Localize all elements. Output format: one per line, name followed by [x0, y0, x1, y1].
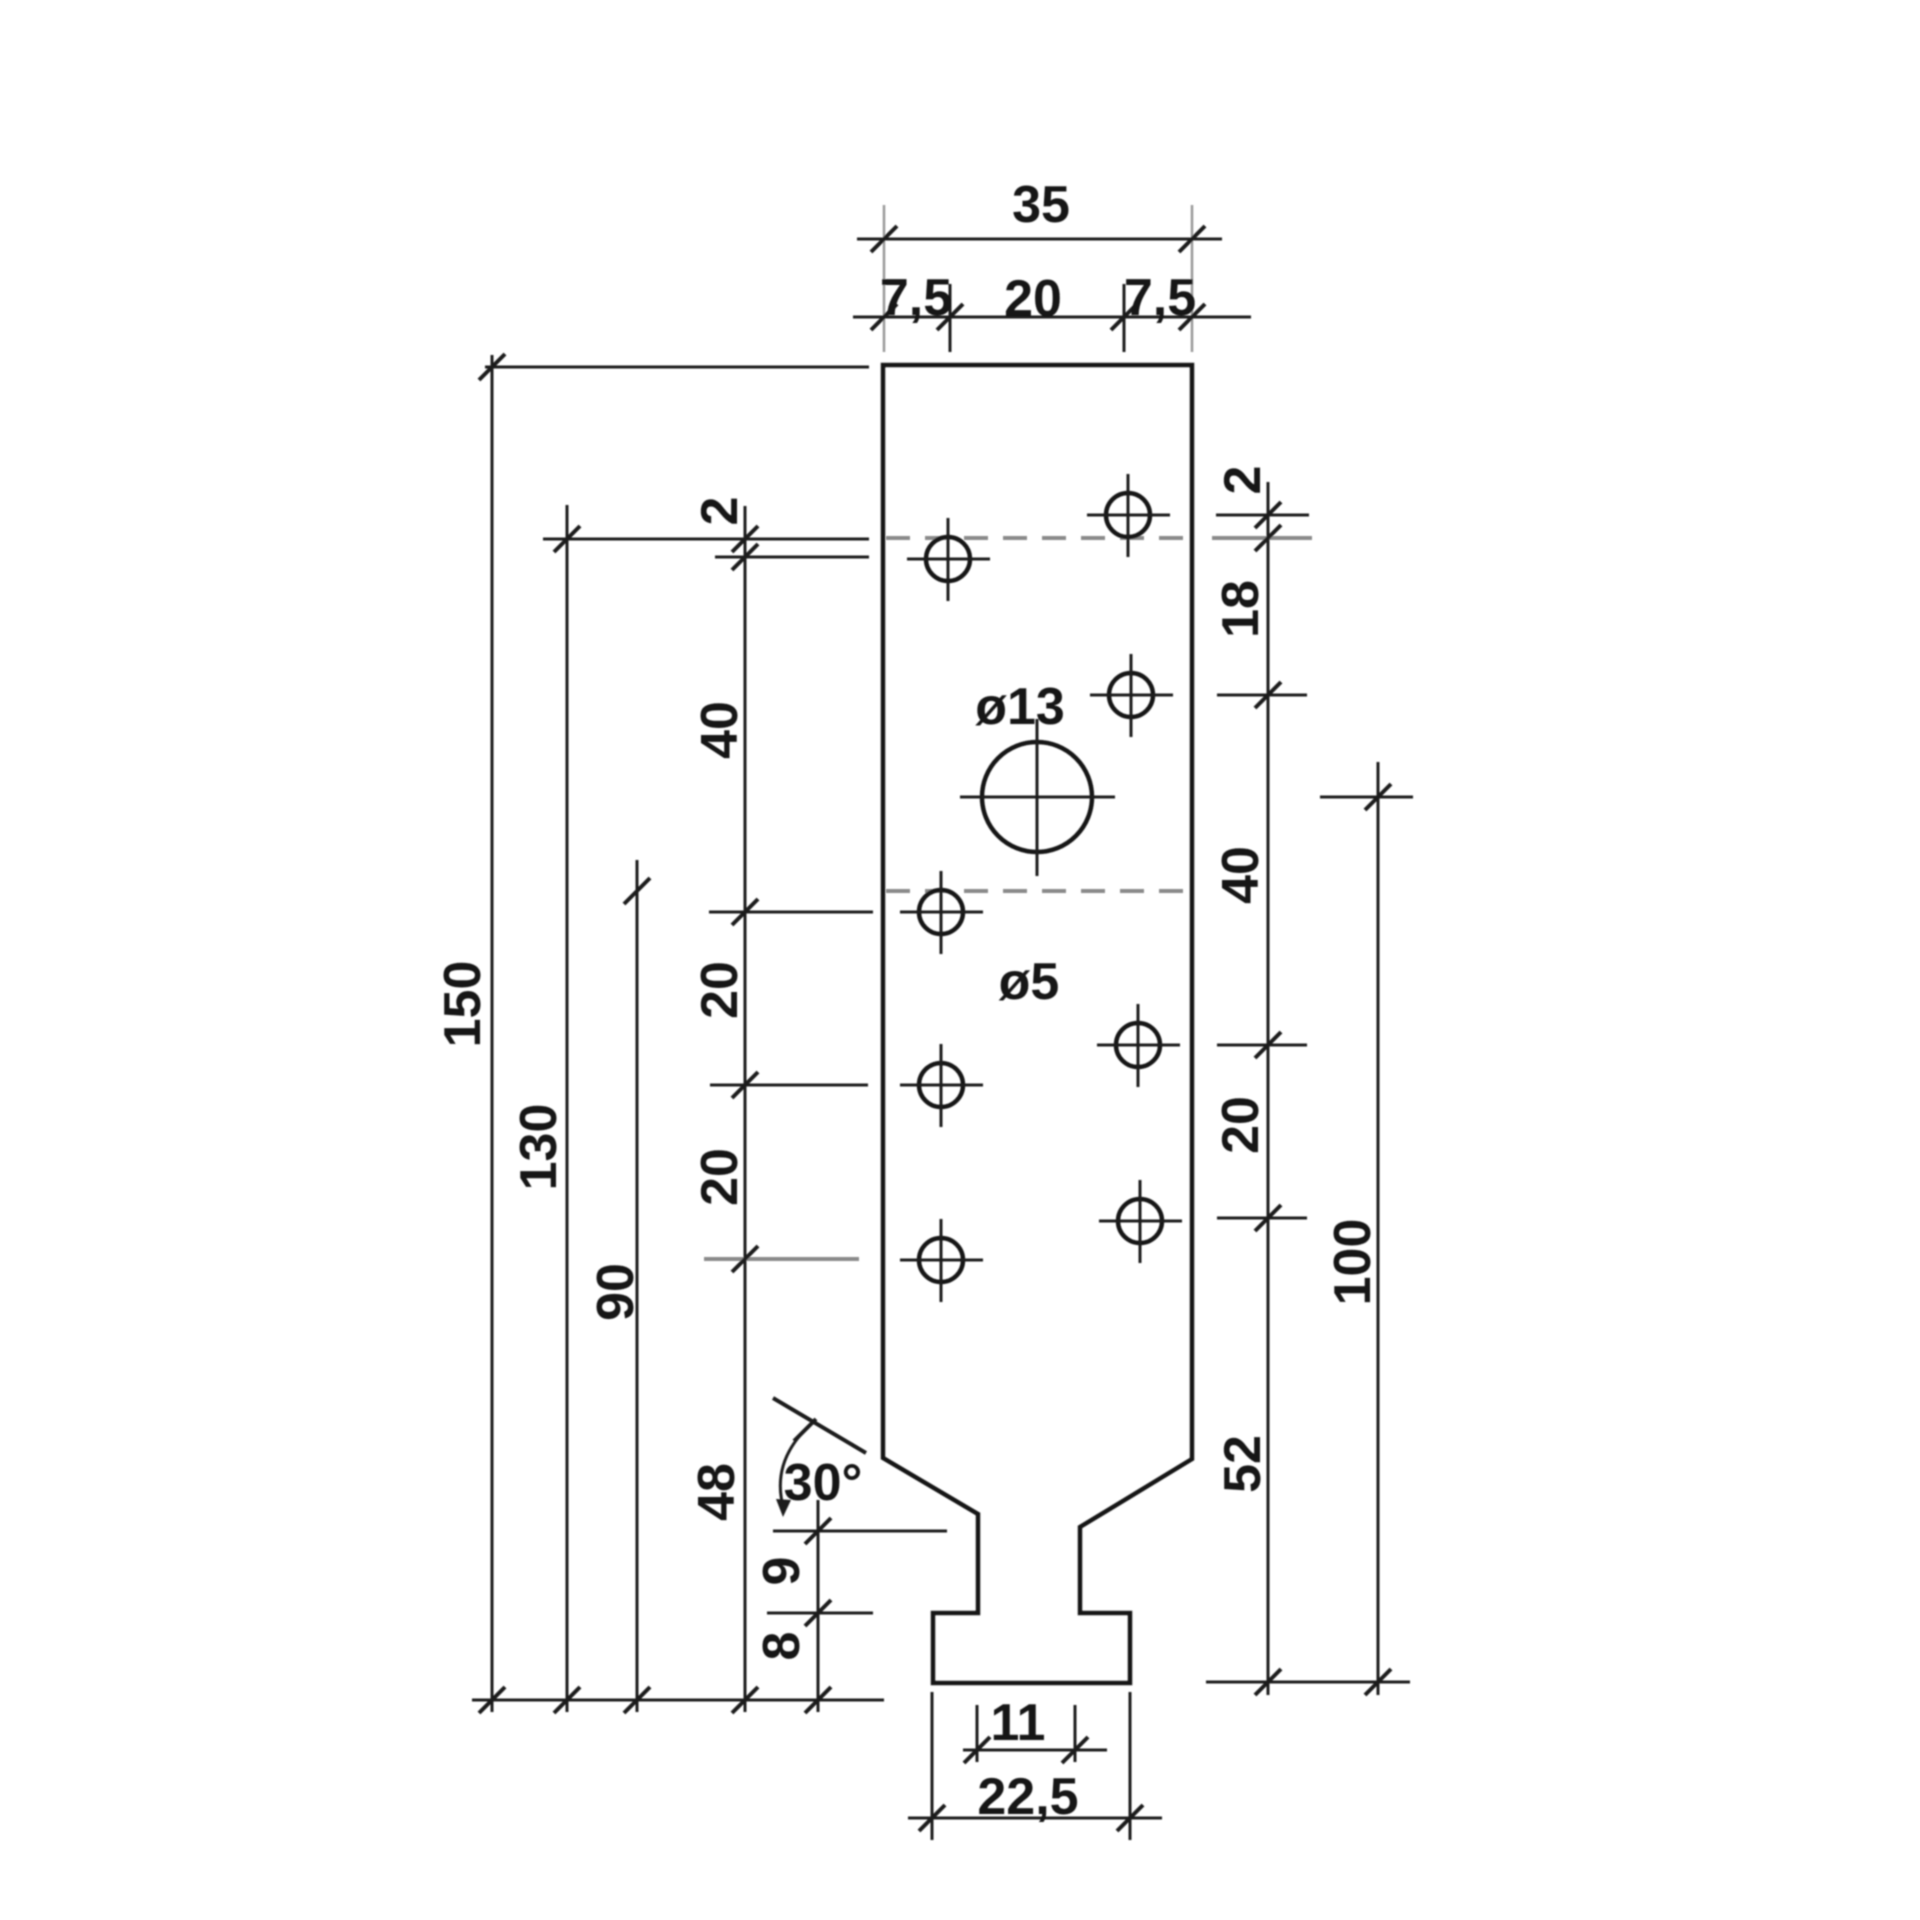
svg-text:ø13: ø13 — [975, 678, 1065, 736]
svg-text:150: 150 — [434, 961, 492, 1048]
svg-text:30°: 30° — [784, 1454, 863, 1512]
svg-text:2: 2 — [691, 497, 749, 526]
svg-text:18: 18 — [1212, 580, 1270, 638]
svg-text:20: 20 — [691, 961, 749, 1019]
svg-text:100: 100 — [1324, 1219, 1382, 1306]
svg-text:35: 35 — [1012, 176, 1070, 234]
svg-text:20: 20 — [691, 1148, 749, 1206]
svg-text:90: 90 — [587, 1263, 645, 1321]
svg-text:ø5: ø5 — [999, 953, 1060, 1011]
svg-text:40: 40 — [1212, 846, 1270, 904]
svg-text:7,5: 7,5 — [1124, 269, 1196, 327]
svg-text:9: 9 — [753, 1557, 811, 1586]
svg-text:22,5: 22,5 — [977, 1768, 1078, 1826]
svg-text:8: 8 — [753, 1632, 811, 1661]
svg-text:20: 20 — [1212, 1096, 1270, 1154]
svg-text:7,5: 7,5 — [880, 269, 952, 327]
svg-text:48: 48 — [688, 1463, 746, 1521]
svg-text:20: 20 — [1004, 270, 1062, 328]
svg-text:2: 2 — [1214, 466, 1272, 495]
svg-text:130: 130 — [510, 1104, 568, 1191]
svg-text:52: 52 — [1214, 1435, 1272, 1493]
svg-text:11: 11 — [991, 1694, 1046, 1752]
svg-text:40: 40 — [691, 701, 749, 759]
